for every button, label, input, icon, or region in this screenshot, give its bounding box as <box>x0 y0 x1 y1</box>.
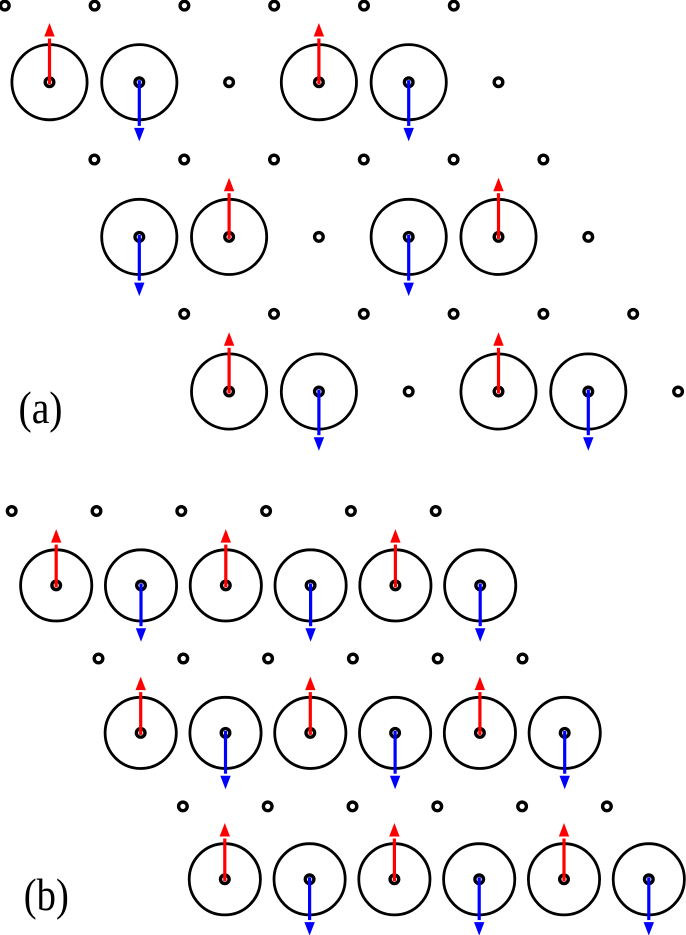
panel b row 2 lattice dot 6 <box>518 654 527 663</box>
panel a row 1 spin-down arrow (blue) 5 <box>404 80 414 141</box>
panel a row 1 site dot 4 <box>315 78 324 87</box>
panel a row 2 lattice dot 4 <box>360 155 369 164</box>
panel b row 3 site dot 6 <box>560 729 569 738</box>
panel a row 5 circle site 1 <box>192 354 267 429</box>
panel a row 3 site dot 5 <box>494 233 503 242</box>
panel b row 1 circle site 3 <box>190 550 261 621</box>
panel b row 3 spin-up arrow (red) 5 <box>475 677 485 735</box>
panel a row 5 circle site 4 <box>461 354 536 429</box>
panel a row 4 lattice dot 3 <box>360 310 369 319</box>
panel a row 5 lattice dot 6 <box>674 387 683 396</box>
panel b row 5 site dot 6 <box>645 875 654 884</box>
panel a row 3 spin-down arrow (blue) 1 <box>134 235 144 296</box>
panel b row 4 lattice dot 4 <box>433 802 442 811</box>
panel b row 1 circle site 5 <box>360 550 431 621</box>
panel b row 0 lattice dot 6 <box>431 507 440 516</box>
panel a row 1 site dot 2 <box>135 78 144 87</box>
panel a row 0 lattice dot 4 <box>270 1 279 10</box>
panel b row 1 spin-up arrow (red) 3 <box>221 529 231 587</box>
panel b row 1 circle site 6 <box>445 550 516 621</box>
panel a row 3 circle site 5 <box>461 199 536 274</box>
panel b row 3 spin-up arrow (red) 3 <box>305 677 315 735</box>
panel a row 1 circle site 5 <box>371 45 446 120</box>
panel a row 5 spin-up arrow (red) 4 <box>493 332 503 393</box>
panel b row 3 circle site 4 <box>360 697 431 768</box>
panel b row 1 spin-down arrow (blue) 4 <box>305 583 315 641</box>
panel b row 2 lattice dot 4 <box>349 654 358 663</box>
panel b row 0 lattice dot 3 <box>177 507 186 516</box>
panel b row 1 spin-down arrow (blue) 2 <box>136 583 146 641</box>
panel b row 5 site dot 5 <box>560 875 569 884</box>
panel a row 3 spin-up arrow (red) 2 <box>224 178 234 239</box>
panel b row 5 spin-up arrow (red) 5 <box>559 823 569 881</box>
panel a row 1 circle site 2 <box>102 45 177 120</box>
panel a row 3 site dot 2 <box>225 233 234 242</box>
panel b row 2 lattice dot 5 <box>433 654 442 663</box>
panel a row 5 lattice dot 3 <box>404 387 413 396</box>
panel b row 0 lattice dot 1 <box>7 507 16 516</box>
panel b row 5 circle site 3 <box>359 844 430 915</box>
panel a row 3 spin-down arrow (blue) 4 <box>404 235 414 296</box>
panel b row 3 circle site 5 <box>444 697 515 768</box>
panel b row 5 spin-up arrow (red) 1 <box>220 823 230 881</box>
panel b row 3 site dot 4 <box>391 729 400 738</box>
panel a row 0 lattice dot 2 <box>90 1 99 10</box>
panel b row 5 spin-up arrow (red) 3 <box>389 823 399 881</box>
panel b row 1 site dot 4 <box>306 581 315 590</box>
panel a row 0 lattice dot 6 <box>450 1 459 10</box>
panel a row 2 lattice dot 2 <box>180 155 189 164</box>
panel b row 3 site dot 3 <box>306 729 315 738</box>
panel b row 3 spin-down arrow (blue) 2 <box>220 731 230 789</box>
panel a row 3 lattice dot 3 <box>315 233 324 242</box>
panel a row 1 spin-up arrow (red) 4 <box>314 23 324 84</box>
panel b row 1 circle site 4 <box>275 550 346 621</box>
panel b row 2 lattice dot 1 <box>94 654 103 663</box>
panel b row 3 site dot 1 <box>136 729 145 738</box>
panel b row 5 site dot 1 <box>221 875 230 884</box>
panel b row 5 circle site 6 <box>613 844 684 915</box>
panel b row 4 lattice dot 6 <box>603 802 612 811</box>
panel b row 1 site dot 5 <box>391 581 400 590</box>
panel a row 1 spin-up arrow (red) 1 <box>44 23 54 84</box>
svg-text:(b): (b) <box>24 869 69 920</box>
panel b row 1 site dot 2 <box>137 581 146 590</box>
panel a row 5 circle site 2 <box>281 354 356 429</box>
panel a row 4 lattice dot 1 <box>180 310 189 319</box>
panel a row 5 site dot 5 <box>584 387 593 396</box>
panel a row 1 spin-down arrow (blue) 2 <box>134 80 144 141</box>
panel b row 3 site dot 5 <box>476 729 485 738</box>
panel a row 5 site dot 1 <box>225 387 234 396</box>
panel a row 5 spin-down arrow (blue) 2 <box>314 390 324 451</box>
panel b row 5 circle site 4 <box>444 844 515 915</box>
panel b row 3 circle site 3 <box>275 697 346 768</box>
panel a row 3 site dot 1 <box>135 233 144 242</box>
panel a row 4 lattice dot 5 <box>539 310 548 319</box>
panel b row 5 circle site 5 <box>528 844 599 915</box>
panel b row 1 site dot 1 <box>52 581 61 590</box>
panel a row 3 circle site 1 <box>102 199 177 274</box>
panel a row 5 circle site 5 <box>551 354 626 429</box>
panel b row 1 spin-down arrow (blue) 6 <box>475 583 485 641</box>
panel b row 5 site dot 4 <box>475 875 484 884</box>
panel b row 3 site dot 2 <box>221 729 230 738</box>
panel b row 3 spin-down arrow (blue) 6 <box>560 731 570 789</box>
panel a row 3 circle site 2 <box>192 199 267 274</box>
panel b row 5 circle site 2 <box>274 844 345 915</box>
panel a row 2 lattice dot 6 <box>539 155 548 164</box>
panel b row 5 site dot 2 <box>305 875 314 884</box>
panel b row 5 spin-down arrow (blue) 6 <box>644 877 654 935</box>
panel b row 2 lattice dot 3 <box>264 654 273 663</box>
panel b row 3 circle site 2 <box>190 697 261 768</box>
panel a row 1 lattice dot 6 <box>494 78 503 87</box>
panel a row 5 spin-up arrow (red) 1 <box>224 332 234 393</box>
panel b row 0 lattice dot 2 <box>92 507 101 516</box>
panel b row 4 lattice dot 5 <box>518 802 527 811</box>
panel a row 5 site dot 4 <box>494 387 503 396</box>
panel b row 1 spin-up arrow (red) 1 <box>51 529 61 587</box>
panel a row 4 lattice dot 4 <box>449 310 458 319</box>
panel b row 2 lattice dot 2 <box>179 654 188 663</box>
panel a row 2 lattice dot 5 <box>449 155 458 164</box>
panel b row 4 lattice dot 1 <box>179 802 188 811</box>
panel b row 5 spin-down arrow (blue) 2 <box>304 877 314 935</box>
panel a row 1 circle site 1 <box>12 45 87 120</box>
panel b row 3 circle site 1 <box>105 697 176 768</box>
panel b row 3 spin-up arrow (red) 1 <box>136 677 146 735</box>
panel a row 3 site dot 4 <box>404 233 413 242</box>
panel a row 2 lattice dot 1 <box>90 155 99 164</box>
panel b row 4 lattice dot 3 <box>348 802 357 811</box>
panel b row 5 site dot 3 <box>390 875 399 884</box>
panel a row 1 site dot 1 <box>45 78 54 87</box>
panel a row 1 site dot 5 <box>404 78 413 87</box>
panel a row 4 lattice dot 6 <box>629 310 638 319</box>
panel b row 4 lattice dot 2 <box>263 802 272 811</box>
panel a row 4 lattice dot 2 <box>270 310 279 319</box>
panel b row 5 circle site 1 <box>189 844 260 915</box>
panel a row 0 lattice dot 5 <box>360 1 369 10</box>
panel b row 1 circle site 2 <box>105 550 176 621</box>
panel b row 1 site dot 6 <box>476 581 485 590</box>
svg-text:(a): (a) <box>19 382 63 433</box>
panel b row 5 spin-down arrow (blue) 4 <box>474 877 484 935</box>
panel a row 0 lattice dot 3 <box>180 1 189 10</box>
panel a row 3 spin-up arrow (red) 5 <box>493 178 503 239</box>
panel a row 3 lattice dot 6 <box>584 233 593 242</box>
panel a row 1 circle site 4 <box>281 45 356 120</box>
panel a row 2 lattice dot 3 <box>270 155 279 164</box>
panel b row 1 circle site 1 <box>21 550 92 621</box>
panel a row 5 spin-down arrow (blue) 5 <box>583 390 593 451</box>
panel b row 3 spin-down arrow (blue) 4 <box>390 731 400 789</box>
panel b row 1 site dot 3 <box>222 581 231 590</box>
panel b row 1 spin-up arrow (red) 5 <box>390 529 400 587</box>
panel b row 0 lattice dot 5 <box>347 507 356 516</box>
panel b row 3 circle site 6 <box>529 697 600 768</box>
panel a row 5 site dot 2 <box>315 387 324 396</box>
panel b row 0 lattice dot 4 <box>262 507 271 516</box>
panel a row 1 lattice dot 3 <box>225 78 234 87</box>
panel a row 0 lattice dot 1 <box>1 1 10 10</box>
panel a row 3 circle site 4 <box>371 199 446 274</box>
